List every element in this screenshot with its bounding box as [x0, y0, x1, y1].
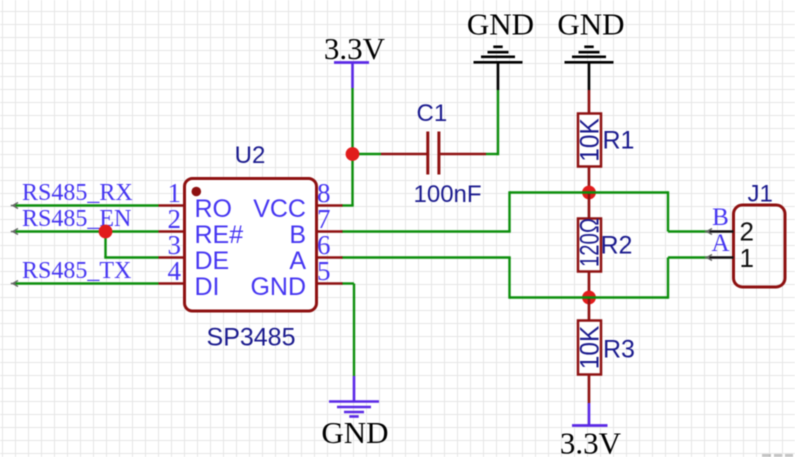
J1 pin 1 [708, 243, 754, 273]
svg-text:4: 4 [168, 256, 182, 286]
svg-text:GND: GND [467, 7, 534, 42]
pin 1 (RO) [159, 178, 233, 223]
port arrow TX [11, 281, 18, 287]
power 3.3V bottom [560, 403, 622, 457]
svg-text:2: 2 [740, 217, 754, 247]
svg-text:5: 5 [317, 256, 331, 286]
resistor R1 [578, 90, 601, 193]
wire bottom rail left rise [508, 258, 510, 299]
svg-text:GND: GND [250, 273, 306, 301]
capacitor C1 [381, 132, 486, 175]
net label RS485_RX [22, 180, 133, 206]
junction dot top rail [582, 186, 596, 200]
svg-text:B: B [289, 221, 306, 249]
port arrow EN [11, 229, 18, 235]
power 3.3V top [324, 31, 386, 88]
svg-text:RS485_TX: RS485_TX [22, 258, 131, 284]
pin 2 (RE#) [159, 204, 244, 249]
port arrow J1 pin2 [705, 229, 712, 235]
value SP3485 [207, 324, 296, 352]
value 10K (R3) [575, 326, 605, 370]
svg-text:100nF: 100nF [414, 181, 482, 208]
svg-text:J1: J1 [748, 181, 773, 208]
pin 4 (DI) [159, 256, 220, 301]
svg-text:DI: DI [195, 273, 220, 301]
value 100nF [414, 181, 482, 208]
wire top rail right drop [667, 191, 669, 231]
svg-text:A: A [289, 247, 306, 275]
label C1 [417, 100, 448, 127]
svg-text:U2: U2 [235, 142, 266, 169]
ground GND top left [467, 7, 534, 91]
port arrow J1 pin1 [705, 255, 712, 261]
svg-text:10K: 10K [575, 118, 605, 162]
svg-text:DE: DE [195, 247, 230, 275]
svg-text:GND: GND [557, 7, 624, 42]
ground GND bottom (purple) [321, 376, 388, 450]
label R1 [603, 127, 635, 155]
svg-text:3.3V: 3.3V [560, 426, 622, 457]
svg-text:1: 1 [740, 243, 754, 273]
svg-text:R2: R2 [601, 232, 633, 260]
label R3 [603, 336, 635, 364]
pin 8 (VCC) [253, 178, 342, 223]
svg-text:C1: C1 [417, 100, 448, 127]
resistor R2 [578, 193, 601, 298]
label R2 [601, 232, 633, 260]
svg-text:R1: R1 [603, 127, 635, 155]
svg-text:RS485_EN: RS485_EN [22, 206, 131, 232]
svg-text:B: B [712, 204, 729, 231]
wire A to IC pin6 [342, 256, 511, 258]
resistor R3 [578, 298, 601, 404]
wire IC pin5 to GND [342, 284, 355, 377]
wire EN branch to pin3 [104, 232, 158, 258]
net label B [712, 204, 729, 231]
net label RS485_EN [22, 206, 131, 232]
ground GND top right [557, 7, 624, 91]
wire RS485_EN [14, 230, 159, 232]
wire RS485_TX [14, 282, 159, 284]
junction dot 3.3V/C1 [346, 147, 360, 161]
pin 5 (GND) [250, 256, 342, 301]
pin 6 (A) [289, 230, 342, 275]
svg-text:R3: R3 [603, 336, 635, 364]
wire bottom rail right rise [667, 258, 669, 299]
op-amp U2 body [185, 179, 317, 312]
wire B to IC pin7 [342, 230, 511, 232]
pin 7 (B) [289, 204, 342, 249]
wire 3.3V vertical [351, 88, 353, 154]
wire junction down to VCC [342, 154, 354, 206]
connector J1 body [734, 205, 786, 287]
wire C1 to GND1 [486, 90, 498, 155]
svg-text:10K: 10K [575, 326, 605, 370]
svg-text:3.3V: 3.3V [324, 31, 386, 66]
pin 3 (DE) [159, 230, 230, 275]
net label A [711, 230, 729, 257]
pin-1 indicator dot [192, 187, 202, 197]
wire top rail [510, 191, 669, 193]
svg-text:SP3485: SP3485 [207, 324, 296, 352]
net label RS485_TX [22, 258, 131, 284]
junction dot EN [99, 225, 113, 239]
svg-text:A: A [711, 230, 729, 257]
junction dot bottom rail [582, 291, 596, 305]
label J1 [748, 181, 773, 208]
J1 pin 2 [708, 217, 754, 247]
svg-text:VCC: VCC [253, 195, 306, 223]
wire top rail left drop [508, 191, 510, 231]
svg-text:RE#: RE# [195, 221, 244, 249]
wire bottom rail [510, 296, 669, 298]
svg-text:RO: RO [195, 195, 233, 223]
watermark [762, 454, 793, 457]
svg-text:RS485_RX: RS485_RX [22, 180, 133, 206]
wire to J1 pin2 [668, 230, 708, 232]
value 10K (R1) [575, 118, 605, 162]
value 120R (R2) [575, 218, 605, 267]
svg-text:GND: GND [321, 415, 388, 450]
wire to J1 pin1 [668, 256, 708, 258]
wire RS485_RX [14, 204, 159, 206]
wire junction to C1 [353, 153, 382, 155]
port arrow RX [11, 203, 18, 209]
label U2 [235, 142, 266, 169]
